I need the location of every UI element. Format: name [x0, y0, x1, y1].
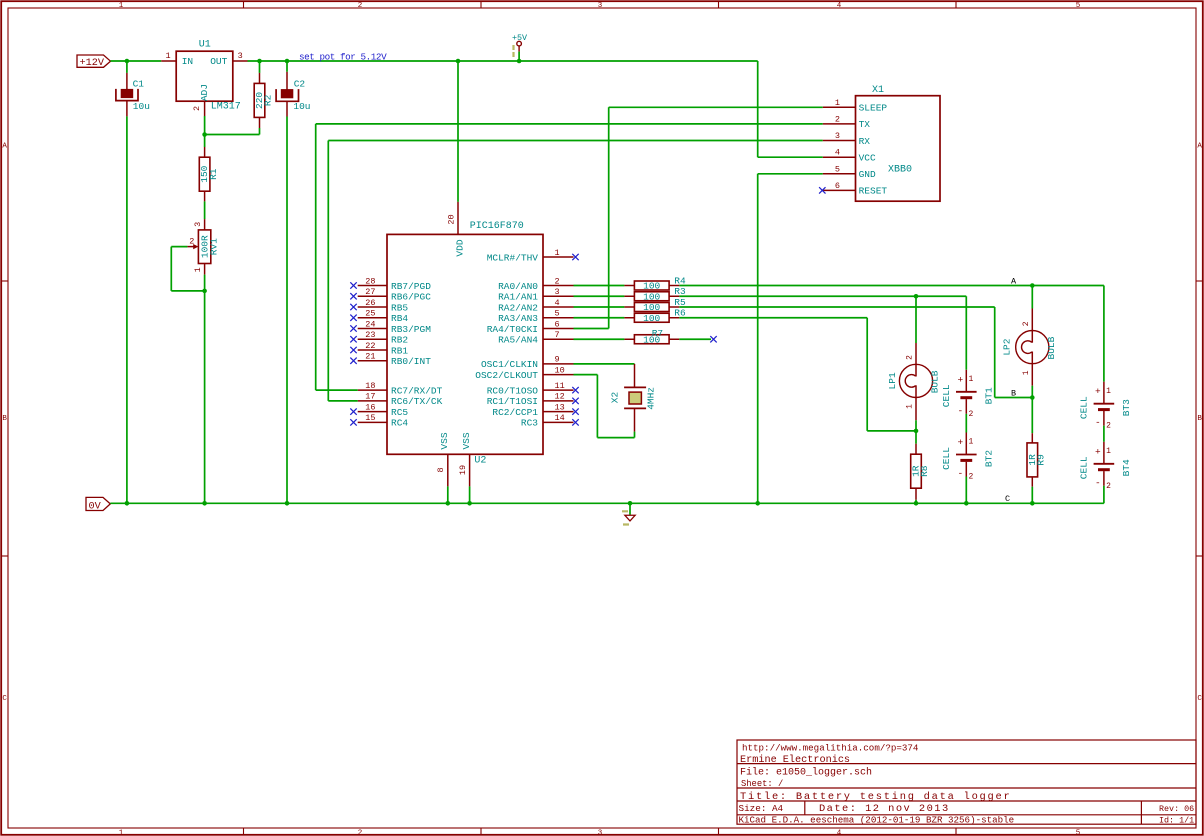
svg-text:RC6/TX/CK: RC6/TX/CK: [391, 396, 443, 407]
junction ADJ node: [202, 132, 207, 137]
power symbol +5V: [512, 33, 527, 57]
svg-text:RB3/PGM: RB3/PGM: [391, 324, 431, 335]
svg-text:RC4: RC4: [391, 418, 408, 429]
svg-text:1: 1: [165, 51, 170, 61]
wire to R2: [259, 61, 261, 73]
lamp LP2: [1002, 321, 1057, 375]
U2 pin 28 RB7/PGD: [350, 276, 431, 292]
svg-text:RC3: RC3: [521, 418, 538, 429]
svg-text:OSC2/CLKOUT: OSC2/CLKOUT: [475, 370, 538, 381]
svg-text:5: 5: [1076, 829, 1081, 836]
svg-text:+: +: [1095, 386, 1101, 397]
wire BT4 to 0V: [1103, 486, 1105, 504]
wire to C2: [286, 61, 288, 72]
wire RA1 to R3: [574, 295, 625, 297]
battery BT2 CELL: [941, 433, 995, 482]
svg-text:5: 5: [555, 309, 560, 319]
svg-text:10: 10: [555, 365, 565, 375]
U2 pin 8 VSS: [436, 432, 450, 486]
wire RA3 to R6: [574, 317, 625, 319]
svg-text:21: 21: [365, 352, 375, 362]
U2 pin 15 RC4: [350, 413, 408, 429]
svg-text:R1: R1: [208, 168, 219, 180]
U2 pin 24 RB3/PGM: [350, 319, 431, 335]
U2 pin 23 RB2: [350, 330, 408, 346]
resistor R7 100: [624, 328, 679, 345]
wire GND from X1: [758, 173, 823, 175]
svg-text:15: 15: [365, 413, 375, 423]
R9 pins: [1031, 433, 1033, 443]
junction 0V C1: [125, 501, 130, 506]
svg-text:2: 2: [1106, 482, 1111, 491]
svg-text:+12V: +12V: [80, 58, 105, 69]
resistor R3 100: [624, 286, 686, 302]
X1 pin 4 VCC: [823, 148, 876, 164]
svg-text:-: -: [957, 405, 963, 416]
svg-text:RC7/RX/DT: RC7/RX/DT: [391, 385, 443, 396]
wire A to LP2: [1031, 286, 1033, 309]
U2 pin 9 OSC1/CLKIN: [481, 355, 574, 371]
svg-text:12: 12: [555, 392, 565, 402]
wire RA4 out: [574, 328, 609, 330]
junction net A LP2: [1030, 283, 1035, 288]
svg-text:R2: R2: [263, 94, 274, 106]
svg-text:RB0/INT: RB0/INT: [391, 356, 431, 367]
U2 pin 18 RC7/RX/DT: [358, 381, 443, 397]
resistor R8 1R: [911, 454, 931, 488]
wire net B across: [679, 306, 994, 308]
U2 pin 4 RA2/AN2: [498, 298, 573, 314]
svg-text:6: 6: [555, 319, 560, 329]
wire +12V to U1: [111, 60, 162, 62]
junction C2 top: [285, 59, 290, 64]
resistor R9 1R: [1027, 443, 1047, 477]
wire net LP1/BT1: [679, 295, 966, 297]
svg-text:RB5: RB5: [391, 302, 408, 313]
svg-text:TX: TX: [859, 119, 871, 130]
svg-text:X2: X2: [609, 392, 620, 404]
svg-text:2: 2: [1022, 321, 1031, 326]
svg-text:MCLR#/THV: MCLR#/THV: [487, 252, 539, 263]
svg-text:RX: RX: [859, 136, 871, 147]
junction 0V R9: [1030, 501, 1035, 506]
svg-text:23: 23: [365, 330, 375, 340]
svg-text:Date: 12 nov 2013: Date: 12 nov 2013: [819, 803, 950, 815]
svg-text:RESET: RESET: [859, 186, 888, 197]
svg-text:PIC16F870: PIC16F870: [470, 221, 524, 232]
svg-text:3: 3: [598, 829, 603, 836]
resistor R2 220: [254, 83, 274, 117]
wire to LP1 top: [915, 296, 917, 343]
wire OSC2 down: [596, 375, 598, 438]
U2 pin 16 RC5: [350, 402, 408, 418]
wire net B down: [994, 307, 996, 398]
border row letters right: [1197, 143, 1202, 704]
junction 0V RV1: [202, 501, 207, 506]
wire wiper across: [171, 290, 204, 292]
svg-text:B: B: [2, 415, 7, 423]
U2 pin 5 RA3/AN3: [498, 309, 573, 325]
svg-text:1: 1: [906, 404, 915, 409]
svg-text:RC2/CCP1: RC2/CCP1: [492, 407, 538, 418]
battery BT3 CELL: [1079, 382, 1133, 431]
wire SLEEP vertical: [608, 107, 610, 328]
svg-text:A: A: [1197, 143, 1202, 151]
wire RV1 wiper: [171, 246, 187, 248]
svg-text:5: 5: [835, 164, 840, 174]
svg-text:2: 2: [1106, 422, 1111, 431]
border row letters left: [2, 143, 7, 704]
wire +5V rail: [248, 60, 758, 62]
svg-text:24: 24: [365, 319, 375, 329]
svg-text:RA5/AN4: RA5/AN4: [498, 335, 538, 346]
svg-text:XBB0: XBB0: [888, 164, 912, 175]
wire GND vertical: [757, 174, 759, 504]
junction +5V rail: [517, 59, 522, 64]
svg-text:Id: 1/1: Id: 1/1: [1159, 816, 1194, 826]
wire to C1: [126, 61, 128, 73]
junction VDD rail: [456, 59, 461, 64]
svg-text:OUT: OUT: [210, 56, 227, 67]
wire C2 to 0V: [286, 117, 288, 504]
wire ADJ down: [204, 116, 206, 147]
svg-text:IN: IN: [182, 56, 193, 67]
svg-text:VSS: VSS: [461, 432, 472, 449]
svg-text:SLEEP: SLEEP: [859, 103, 888, 114]
power flag +12V: [77, 55, 111, 69]
svg-text:4MHz: 4MHz: [645, 387, 656, 410]
X1 pin 2 TX: [823, 114, 871, 130]
svg-text:BT4: BT4: [1121, 459, 1132, 476]
svg-text:1: 1: [835, 98, 840, 108]
wire RA5 to R7: [574, 338, 625, 340]
junction RV1 bottom: [202, 289, 207, 294]
svg-text:LP2: LP2: [1002, 338, 1013, 355]
wire RA0 to R4: [574, 285, 625, 287]
junction LP1 top: [914, 294, 919, 299]
svg-text:A: A: [1011, 277, 1017, 287]
wire VSS to 0V: [447, 486, 449, 503]
svg-text:3: 3: [835, 131, 840, 141]
resistor R5 100: [624, 297, 686, 313]
R2 pins: [259, 73, 261, 84]
U2 pin 10 OSC2/CLKOUT: [475, 365, 573, 381]
U2 pin 6 RA4/T0CKI: [487, 319, 574, 335]
svg-text:2: 2: [555, 276, 560, 286]
lamp LP1: [887, 355, 941, 409]
svg-text:4: 4: [555, 298, 560, 308]
svg-text:OSC1/CLKIN: OSC1/CLKIN: [481, 359, 538, 370]
svg-text:16: 16: [365, 402, 375, 412]
U2 pin 26 RB5: [350, 298, 408, 314]
wire BT1 to BT2: [965, 414, 967, 433]
svg-text:BT3: BT3: [1121, 399, 1132, 416]
svg-text:U1: U1: [199, 39, 211, 50]
U1 pin 1 IN: [161, 51, 176, 61]
svg-text:CELL: CELL: [941, 384, 952, 407]
wire net LP1 bottom across: [679, 317, 867, 319]
svg-text:RA2/AN2: RA2/AN2: [498, 302, 538, 313]
svg-text:10u: 10u: [293, 101, 310, 112]
svg-text:RC0/T1OSO: RC0/T1OSO: [487, 385, 539, 396]
svg-text:3: 3: [598, 2, 603, 10]
svg-text:100: 100: [643, 291, 660, 302]
svg-text:C: C: [1005, 494, 1010, 504]
U1 pin 3 OUT: [233, 51, 248, 61]
svg-text:VSS: VSS: [439, 432, 450, 449]
svg-text:R9: R9: [1036, 454, 1047, 466]
svg-text:CELL: CELL: [1079, 396, 1090, 419]
potentiometer RV1 100R: [187, 219, 219, 275]
U2 pin 14 RC3: [521, 413, 579, 429]
wire R2 to ADJ node: [205, 134, 260, 136]
U2 pin 19 VSS: [458, 432, 472, 486]
svg-text:7: 7: [555, 330, 560, 340]
U2 pin 11 RC0/T1OSO: [487, 381, 579, 397]
svg-text:C: C: [1197, 695, 1202, 703]
svg-text:1: 1: [969, 375, 974, 384]
svg-text:VCC: VCC: [859, 153, 876, 164]
svg-text:RB2: RB2: [391, 335, 408, 346]
ground symbol: [622, 503, 635, 524]
svg-text:BT1: BT1: [984, 387, 995, 404]
svg-text:3: 3: [193, 222, 203, 227]
svg-text:10u: 10u: [133, 101, 150, 112]
svg-text:1: 1: [1106, 387, 1111, 396]
svg-text:U2: U2: [474, 456, 486, 467]
svg-text:0V: 0V: [89, 501, 102, 512]
border column numbers bottom: [119, 829, 1081, 836]
svg-text:RA4/T0CKI: RA4/T0CKI: [487, 324, 538, 335]
svg-text:-: -: [957, 468, 963, 479]
wire X2 bottom stub: [634, 432, 636, 438]
svg-text:C2: C2: [294, 79, 306, 90]
svg-text:LP1: LP1: [887, 372, 898, 389]
U2 pin 12 RC1/T1OSI: [487, 392, 579, 408]
svg-text:100: 100: [643, 313, 660, 324]
svg-text:1: 1: [193, 267, 203, 272]
svg-text:RC5: RC5: [391, 407, 408, 418]
svg-text:Sheet: /: Sheet: /: [741, 779, 783, 789]
svg-text:14: 14: [555, 413, 565, 423]
X1 pin 6 RESET: [823, 181, 888, 197]
svg-text:2: 2: [969, 410, 974, 419]
U2 pin 13 RC2/CCP1: [492, 402, 578, 418]
svg-text:5: 5: [1076, 2, 1081, 10]
regulator U1 LM317: [176, 39, 241, 112]
U2 pin 27 RB6/PGC: [350, 287, 431, 303]
svg-text:RA0/AN0: RA0/AN0: [498, 281, 538, 292]
wire R1 to RV1: [204, 201, 206, 219]
svg-text:3: 3: [238, 51, 243, 61]
border column numbers top: [119, 2, 1081, 10]
svg-text:Size: A4: Size: A4: [739, 803, 784, 814]
svg-text:1: 1: [1106, 447, 1111, 456]
svg-text:3: 3: [555, 287, 560, 297]
wire VSS to 0V: [469, 486, 471, 503]
microcontroller U2 PIC16F870: [387, 221, 543, 466]
X1 pin 1 SLEEP: [823, 98, 888, 114]
junction 0V C2: [285, 501, 290, 506]
svg-text:CELL: CELL: [941, 447, 952, 470]
junction 0V R8: [914, 501, 919, 506]
svg-text:9: 9: [555, 355, 560, 365]
svg-text:LM317: LM317: [211, 102, 241, 113]
X1 pin 5 GND: [823, 164, 876, 180]
svg-text:20: 20: [446, 214, 456, 224]
svg-text:RC1/T1OSI: RC1/T1OSI: [487, 396, 538, 407]
junction LP1 bottom: [914, 429, 919, 434]
wire net A: [679, 285, 1104, 287]
svg-text:+: +: [1095, 446, 1101, 457]
wire R9 to 0V: [1031, 487, 1033, 504]
wire net B to LP2: [995, 397, 1033, 399]
wire RA2 to R5: [574, 306, 625, 308]
svg-text:BULB: BULB: [1046, 336, 1057, 359]
LP1 pins: [915, 343, 917, 364]
svg-text:B: B: [1011, 389, 1016, 399]
U2 pin 3 RA1/AN1: [498, 287, 573, 303]
U2 pin 22 RB1: [350, 341, 408, 357]
connector X1 XBB0: [856, 85, 941, 201]
junction C1 top: [125, 59, 130, 64]
svg-text:11: 11: [555, 381, 565, 391]
svg-text:+: +: [957, 374, 963, 385]
svg-text:1: 1: [1022, 370, 1031, 375]
svg-text:BT2: BT2: [984, 450, 995, 467]
wire RX vertical: [327, 141, 329, 401]
wire R8 to 0V: [915, 500, 917, 504]
wire +5V to VCC: [757, 61, 759, 157]
svg-text:ADJ: ADJ: [199, 84, 210, 101]
svg-text:4: 4: [835, 148, 840, 158]
wire OSC2 out: [574, 374, 598, 376]
junction R2 top: [257, 59, 262, 64]
junction 0V BT2: [964, 501, 969, 506]
wire X2 bottom across: [597, 437, 634, 439]
svg-text:4: 4: [837, 829, 842, 836]
capacitor C2: [276, 72, 310, 117]
svg-text:26: 26: [365, 298, 375, 308]
svg-text:2: 2: [189, 237, 194, 247]
svg-text:RB7/PGD: RB7/PGD: [391, 281, 431, 292]
svg-text:1: 1: [119, 2, 124, 10]
svg-text:2: 2: [192, 106, 202, 111]
svg-text:1: 1: [119, 829, 124, 836]
wire net LP1 bottom down: [866, 318, 868, 431]
svg-text:100: 100: [643, 281, 660, 292]
wire wiper down: [170, 247, 172, 291]
wire LP2 to R9: [1031, 386, 1033, 434]
svg-text:set pot for 5.12V: set pot for 5.12V: [299, 52, 387, 63]
wire net LP1 bottom to LP1: [867, 430, 916, 432]
wire BT3 to BT4: [1103, 426, 1105, 442]
wire SLEEP to X1: [609, 106, 823, 108]
svg-text:6: 6: [835, 181, 840, 191]
wire to BT1: [965, 296, 967, 370]
U2 pin 25 RB4: [350, 309, 408, 325]
svg-text:RB4: RB4: [391, 313, 408, 324]
wire TX vertical: [315, 124, 317, 390]
svg-text:RB6/PGC: RB6/PGC: [391, 292, 431, 303]
X1 RESET no-connect: [819, 187, 825, 193]
R8 pins: [915, 444, 917, 455]
U2 pin 2 RA0/AN0: [498, 276, 573, 292]
svg-text:-: -: [1095, 477, 1101, 488]
svg-text:http://www.megalithia.com/?p=3: http://www.megalithia.com/?p=374: [742, 743, 919, 754]
svg-text:R8: R8: [919, 465, 930, 477]
wire +5V to VDD: [457, 61, 459, 202]
battery BT1 CELL: [941, 370, 995, 419]
wire RV1 to 0V: [204, 275, 206, 504]
wire RX to X1: [328, 140, 822, 142]
U2 pin 20 VDD: [446, 202, 465, 257]
U2 pin 1 MCLR#/THV: [487, 248, 579, 263]
svg-text:2: 2: [835, 114, 840, 124]
svg-text:X1: X1: [872, 85, 884, 96]
svg-text:2: 2: [358, 829, 363, 836]
svg-text:18: 18: [365, 381, 375, 391]
U2 pin 17 RC6/TX/CK: [358, 392, 443, 408]
R1 pins: [204, 147, 206, 157]
svg-text:25: 25: [365, 309, 375, 319]
wire A to BT3: [1103, 286, 1105, 382]
wire R2 bottom: [259, 128, 261, 135]
svg-text:BULB: BULB: [930, 370, 941, 393]
U1 pin 2 ADJ: [192, 101, 204, 116]
resistor R4 100: [624, 275, 686, 291]
svg-text:22: 22: [365, 341, 375, 351]
svg-text:RA3/AN3: RA3/AN3: [498, 313, 538, 324]
crystal X2 4MHz: [609, 364, 656, 432]
wire BT2 to 0V: [965, 477, 967, 504]
svg-text:+: +: [957, 437, 963, 448]
junction 0V ground: [628, 501, 633, 506]
svg-text:100: 100: [643, 302, 660, 313]
svg-text:8: 8: [436, 467, 446, 472]
svg-text:28: 28: [365, 276, 375, 286]
R7 no-connect: [679, 338, 711, 340]
svg-text:1: 1: [969, 438, 974, 447]
svg-text:File: e1050_logger.sch: File: e1050_logger.sch: [740, 766, 872, 778]
svg-text:13: 13: [555, 402, 565, 412]
svg-text:Title: Battery testing data lo: Title: Battery testing data logger: [740, 791, 1012, 803]
svg-text:RA1/AN1: RA1/AN1: [498, 292, 538, 303]
svg-text:KiCad E.D.A. eeschema (2012-0: KiCad E.D.A. eeschema (2012-01-19 BZR 32…: [739, 815, 1015, 826]
wire TX to X1: [316, 123, 823, 125]
svg-text:2: 2: [906, 355, 915, 360]
svg-text:2: 2: [358, 2, 363, 10]
svg-text:C: C: [2, 695, 7, 703]
wire 0V rail: [110, 502, 1104, 504]
wire C1 to 0V: [126, 116, 128, 503]
svg-text:RV1: RV1: [209, 238, 220, 255]
wire VCC to X1: [758, 156, 823, 158]
LP2 pins: [1031, 309, 1033, 331]
svg-text:A: A: [2, 143, 7, 151]
battery BT4 CELL: [1079, 442, 1133, 491]
svg-text:GND: GND: [859, 169, 876, 180]
svg-text:-: -: [1095, 417, 1101, 428]
junction net B LP2: [1030, 395, 1035, 400]
wire OSC1 to X2: [574, 363, 635, 365]
U2 pin 21 RB0/INT: [350, 352, 431, 368]
junction 0V VSS: [446, 501, 451, 506]
svg-text:2: 2: [969, 473, 974, 482]
svg-text:Ermine Electronics: Ermine Electronics: [740, 754, 850, 766]
resistor R6 100: [624, 308, 686, 324]
svg-text:4: 4: [837, 2, 842, 10]
